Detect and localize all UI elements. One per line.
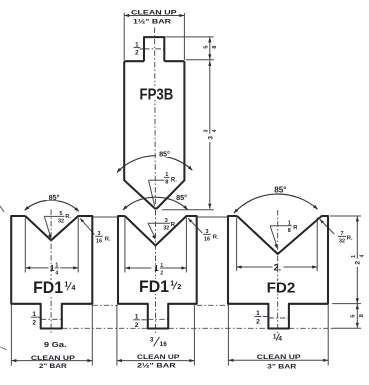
svg-text:8: 8 — [212, 45, 218, 48]
svg-text:3: 3 — [98, 231, 101, 237]
svg-text:3: 3 — [207, 136, 214, 140]
svg-text:32: 32 — [163, 225, 169, 231]
svg-text:4: 4 — [212, 129, 218, 132]
svg-text:CLEAN UP: CLEAN UP — [131, 9, 177, 16]
svg-text:CLEAN UP: CLEAN UP — [31, 355, 75, 362]
svg-text:1: 1 — [55, 263, 58, 269]
svg-text:5: 5 — [203, 46, 209, 49]
svg-text:2: 2 — [256, 319, 260, 326]
svg-text:R.: R. — [105, 236, 111, 242]
svg-text:2: 2 — [135, 322, 139, 329]
svg-text:1: 1 — [64, 280, 68, 289]
svg-text:8: 8 — [165, 180, 168, 186]
svg-text:8: 8 — [359, 314, 365, 317]
svg-text:CLEAN UP: CLEAN UP — [137, 354, 180, 361]
svg-text:2: 2 — [32, 319, 36, 326]
svg-text:3: 3 — [206, 229, 209, 235]
svg-text:1: 1 — [32, 311, 36, 318]
svg-text:16: 16 — [96, 238, 102, 244]
svg-text:4: 4 — [278, 336, 282, 343]
svg-text:3: 3 — [165, 218, 168, 224]
svg-text:1½" BAR: 1½" BAR — [133, 18, 171, 26]
svg-text:R.: R. — [213, 234, 219, 240]
svg-text:3: 3 — [204, 129, 210, 132]
svg-text:1: 1 — [50, 264, 55, 273]
svg-text:3" BAR: 3" BAR — [267, 364, 296, 371]
svg-text:1: 1 — [135, 41, 139, 48]
svg-text:85°: 85° — [274, 185, 286, 194]
svg-text:1: 1 — [351, 255, 357, 258]
svg-text:R.: R. — [347, 235, 353, 241]
svg-text:85°: 85° — [176, 193, 187, 202]
svg-text:32: 32 — [339, 238, 345, 244]
svg-text:2: 2 — [355, 261, 362, 265]
svg-text:5: 5 — [60, 211, 63, 217]
svg-text:2" BAR: 2" BAR — [39, 363, 67, 370]
svg-text:4: 4 — [359, 254, 365, 257]
svg-text:1: 1 — [160, 263, 163, 269]
svg-text:1: 1 — [256, 310, 260, 317]
svg-text:9 Ga.: 9 Ga. — [44, 340, 67, 349]
svg-text:2½" BAR: 2½" BAR — [137, 362, 176, 370]
svg-text:R.: R. — [65, 214, 71, 220]
svg-text:FD2: FD2 — [267, 279, 296, 296]
svg-text:85°: 85° — [49, 193, 60, 202]
svg-text:R.: R. — [171, 222, 177, 228]
svg-text:FP3B: FP3B — [140, 86, 174, 103]
svg-text:FD1: FD1 — [33, 278, 63, 297]
svg-text:CLEAN UP: CLEAN UP — [257, 354, 301, 361]
svg-text:16: 16 — [160, 341, 168, 348]
svg-text:2: 2 — [160, 270, 163, 276]
svg-text:4: 4 — [55, 270, 58, 276]
svg-text:3: 3 — [150, 337, 154, 344]
svg-text:2: 2 — [177, 282, 181, 291]
svg-text:FD1: FD1 — [139, 277, 169, 296]
svg-text:32: 32 — [58, 218, 64, 224]
svg-text:2: 2 — [135, 49, 139, 56]
svg-text:8: 8 — [288, 228, 291, 234]
svg-text:1: 1 — [154, 264, 159, 273]
svg-text:1: 1 — [273, 333, 277, 340]
svg-text:5: 5 — [351, 314, 357, 317]
svg-text:1: 1 — [165, 172, 168, 178]
svg-text:1: 1 — [288, 221, 291, 227]
svg-text:2.: 2. — [274, 263, 282, 273]
svg-text:85°: 85° — [159, 149, 170, 158]
svg-text:1: 1 — [135, 314, 139, 321]
svg-text:1: 1 — [170, 279, 174, 288]
svg-text:7: 7 — [341, 231, 344, 237]
svg-text:16: 16 — [204, 236, 210, 242]
svg-text:R.: R. — [171, 177, 177, 183]
